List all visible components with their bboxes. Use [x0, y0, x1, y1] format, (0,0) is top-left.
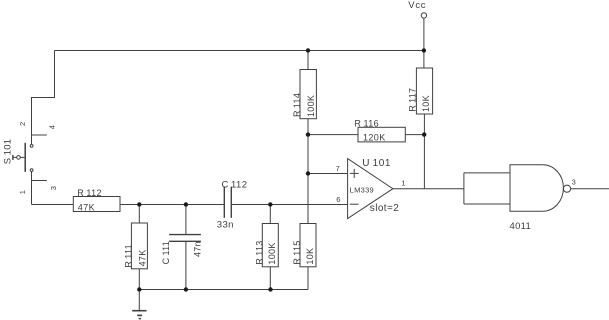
svg-text:R 111: R 111	[123, 244, 133, 267]
svg-text:R 112: R 112	[77, 188, 102, 198]
svg-text:Vcc: Vcc	[408, 0, 426, 11]
svg-text:S 101: S 101	[2, 139, 13, 165]
svg-text:LM339: LM339	[350, 185, 374, 194]
svg-text:6: 6	[336, 195, 340, 204]
svg-text:10K: 10K	[421, 95, 431, 112]
svg-text:R 115: R 115	[292, 240, 302, 264]
svg-text:C 111: C 111	[161, 241, 171, 264]
svg-text:R 114: R 114	[292, 93, 302, 117]
svg-text:2: 2	[18, 122, 27, 126]
svg-text:1: 1	[401, 179, 405, 188]
svg-text:100K: 100K	[306, 95, 316, 117]
svg-text:33n: 33n	[217, 219, 234, 230]
svg-text:10K: 10K	[305, 248, 315, 265]
svg-text:47n: 47n	[193, 241, 203, 257]
svg-text:100K: 100K	[267, 242, 277, 264]
svg-text:1: 1	[18, 190, 27, 194]
svg-text:slot=2: slot=2	[370, 203, 399, 214]
svg-text:3: 3	[572, 178, 576, 187]
svg-text:47K: 47K	[137, 249, 147, 266]
svg-text:R 117: R 117	[408, 88, 418, 112]
svg-text:4011: 4011	[510, 221, 532, 232]
svg-text:C 112: C 112	[222, 180, 248, 191]
svg-text:4: 4	[47, 125, 56, 129]
svg-text:47K: 47K	[78, 202, 95, 212]
svg-text:3: 3	[49, 186, 58, 190]
svg-text:7: 7	[336, 164, 340, 173]
svg-text:U 101: U 101	[362, 158, 391, 169]
svg-text:R 113: R 113	[254, 240, 264, 264]
svg-text:120K: 120K	[363, 133, 386, 143]
svg-text:R 116: R 116	[354, 119, 379, 129]
